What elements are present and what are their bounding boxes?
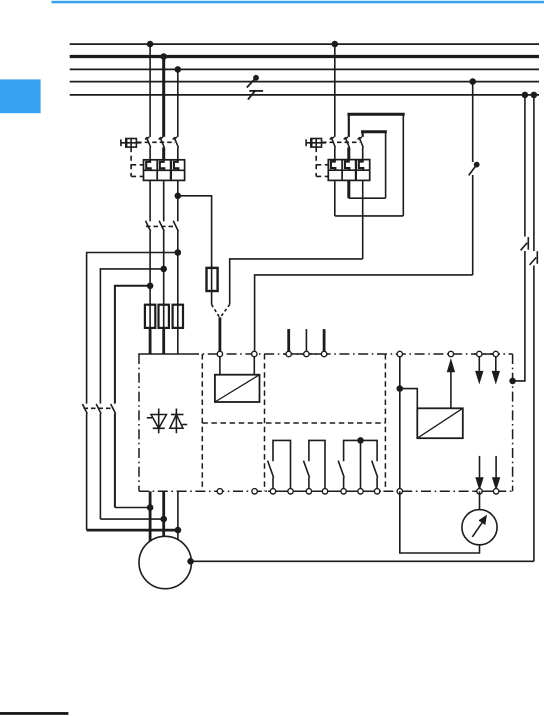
node field feed branch [397,385,404,392]
wire from Q2 pole3 (horizontal) [230,259,363,305]
wire Q1 pole3 to contactor [177,180,179,221]
relay contact K2 (bar + legs) [268,440,291,488]
node L5 tap 2 [531,92,538,99]
wire Q2 inner loop to pole3 top [362,132,364,137]
page header rule (blue) [52,1,544,4]
node bypass/armature 1 [147,504,154,511]
field section feed wire [399,354,401,491]
fuse F4 [173,305,183,354]
overload relay F6 heater 3 [359,160,364,171]
fuse F2 [145,305,155,354]
wire PE drop 1 (to cabinet) [513,95,525,381]
node bypass/motor aux [175,527,182,534]
breaker Q1 trip link (dashed) [131,147,143,176]
section divider 1 (dashed) [201,354,203,491]
link symbol on PE drop 1 [520,237,531,252]
section divider 2 (dashed) [264,354,266,491]
breaker Q1 manual actuator [121,139,141,148]
node L1/Q1 [147,41,154,48]
wire pole3 tap to fuse [177,253,179,328]
converter cabinet border top (dash-dot) [138,353,189,355]
terminal circles on bottom border [217,489,222,494]
field return arrow 2 (bottom) [493,456,500,489]
contact symbol on L4 (blade with dot) [247,75,259,88]
control stub terminal 1 [287,329,290,354]
wire Q2 inner loop bottom [349,197,386,199]
breaker Q1 pole2 contact [159,137,165,160]
wire terminal to U1 input 2 [253,354,255,375]
fuse F5 (control) [207,265,218,305]
breaker Q2 pole1 drop from L1 [334,44,336,137]
wire Q2 inner loop right [385,132,387,198]
bypass wire phase1 lower [115,507,150,509]
wire bus L4 [70,81,539,83]
node L2/Q1 [160,53,167,60]
bypass wire phase2 lower [100,518,163,520]
breaker Q1 pole3 drop from L3 [177,69,179,136]
wire Q2 outer loop bottom [335,215,404,217]
wire pole1 tap to fuse [149,286,151,328]
node L3/Q1 [175,66,182,73]
node bypass/armature 2 [160,516,167,523]
converter cabinet border bottom (dash-dot) [139,490,513,492]
disconnect Q3 pole2 [96,404,101,519]
breaker Q2 mechanical linkage (dashed) [322,141,360,143]
overload relay F6 box [328,160,369,181]
armature wire 1 to motor (bold) [149,491,152,541]
wire V stem to converter terminal [218,317,221,354]
field return arrow 1 (bottom) [476,456,483,489]
wire branch to fuse F5 [178,196,212,268]
node pole1 bypass tap [147,283,154,290]
breaker Q2 manual actuator [306,139,326,148]
armature converter U1 [215,375,260,402]
wire Q2 pole1 exit to loop [334,180,336,216]
contactor K1 pole3 [173,221,178,253]
bypass wire phase1 upper [115,286,150,404]
wire bus L2 (bold) [70,55,539,58]
meter P1 needle [472,516,486,537]
twisted pair merge (dashed V) [212,304,230,318]
wire Q2 outer loop top (bold) [347,113,404,116]
field converter U2 [417,408,463,438]
wire Q2 inner loop top (bold) [361,130,387,133]
wire bus L3 [70,68,539,70]
page footer bar [0,712,68,715]
node L1/Q2 [332,41,339,48]
breaker Q1 pole1 contact [145,137,151,160]
aux wire to motor [177,491,179,539]
converter cabinet border left (dash-dot) [138,354,140,491]
breaker Q1 pole1 drop from L1 [149,44,151,137]
section divider horizontal (dashed) [202,422,385,424]
contactor K1 pole2 [159,221,164,269]
wire Q2 pole2 exit to inner loop (bold) [347,180,350,198]
disconnect Q3 pole1 [82,404,87,530]
breaker Q2 trip link (dashed) [316,147,328,176]
section divider 3 (dashed) [384,354,386,491]
wire Q2 loop to pole2 top [348,114,350,137]
bypass wire phase2 upper [100,269,163,404]
node pole3 bypass tap [175,249,182,256]
wire PE drop 2 (to motor frame) [533,95,535,561]
wire branch to field converter U2 [400,389,418,409]
overload relay F6 heater 1 [331,160,336,171]
link symbol on L5 (blade with bar) [248,90,263,99]
bypass wire phase3 upper [87,253,178,404]
switch S1 contact (blade with dot) [468,162,480,176]
contactor K1 linkage (dashed) [146,225,174,227]
wire Q2 pole3 exit down [362,180,364,259]
node PE to cabinet frame [509,378,516,385]
breaker Q2 pole1 contact [330,137,336,160]
contactor K1 pole1 [146,221,151,286]
wire bus L5 (PE) [70,94,539,96]
node L5 tap 1 [522,92,529,99]
breaker Q1 mechanical linkage (dashed) [137,141,175,143]
wire meter loop from field terminal [400,491,480,553]
overload relay F1 box [144,160,185,181]
field out arrow 2 (top) [492,357,499,383]
bypass wire phase3 lower (bold) [87,529,178,532]
wire Q2 outer loop right [402,114,404,216]
relay contact K3 [304,440,326,488]
terminal circles on top border [217,351,222,356]
wire bus L1 [70,43,539,45]
field out arrow 1 (top) [476,357,483,383]
overload relay F1 heater 3 [174,160,179,171]
node motor frame PE [187,558,194,565]
wire Q1 pole1 to contactor [149,180,151,221]
breaker Q2 pole2 contact [344,137,350,160]
node L4 tap [469,78,476,85]
wire terminal to U1 input 1 [219,354,221,375]
armature wire 2 to motor (bold) [162,491,165,536]
wire meter to terminal [479,491,481,509]
page margin tab (blue) [0,79,41,113]
disconnect Q3 linkage (dashed) [84,407,112,409]
control stub terminal 3 [323,329,326,354]
link symbol on PE drop 2 [529,251,540,266]
wire Q1 pole2 to contactor [163,180,165,221]
wire U2 output with up arrow [447,360,454,408]
disconnect Q3 pole3 [111,404,116,508]
switch S1 branch from L4 [472,82,474,275]
breaker Q2 pole3 contact [358,137,364,160]
thyristor pair V1 (down) [147,409,167,434]
fuse F3 [159,305,169,354]
node pole2 bypass tap [160,266,167,273]
wire motor frame to PE [191,560,534,562]
node pole3 / fuse branch [175,193,182,200]
breaker Q1 pole2 drop from L2 (bold) [162,57,165,137]
wire S1 to converter terminal [255,275,473,354]
wire pole2 tap to fuse [163,269,165,328]
overload relay F6 heater 2 [345,160,350,171]
control stub terminal 2 [305,329,307,354]
breaker Q1 pole3 contact [173,137,179,160]
meter P1 [462,510,497,545]
relay contact K4/K5 group [338,437,378,489]
thyristor pair V2 (up) [170,409,187,434]
motor M1 [139,536,191,588]
overload relay F1 heater 1 [146,160,151,171]
overload relay F1 heater 2 [160,160,165,171]
converter cabinet border right (dash-dot) [512,354,514,491]
